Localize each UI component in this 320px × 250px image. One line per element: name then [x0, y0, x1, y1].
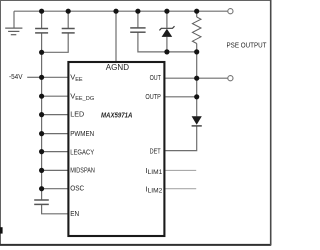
- wire AGND riser: [115, 11, 117, 61]
- capacitor C1: [35, 29, 48, 33]
- wire OUTP stub: [165, 96, 196, 98]
- wire capacitor C1 bottom lead: [41, 33, 43, 53]
- svg-text:AGND: AGND: [106, 63, 129, 72]
- svg-text:LEGACY: LEGACY: [70, 147, 94, 156]
- wire OUT stub to terminal: [165, 77, 227, 79]
- wire OUT column upper: [196, 52, 198, 117]
- node OUT: [194, 76, 199, 81]
- svg-text:PSE OUTPUT: PSE OUTPUT: [227, 41, 267, 50]
- wire OSC stub: [42, 188, 68, 190]
- wire resistor R1 bottom lead: [196, 44, 198, 52]
- node zener top: [164, 9, 169, 14]
- wire ground riser: [13, 11, 15, 28]
- node AGND top: [113, 9, 118, 14]
- wire capacitor C1 top lead: [41, 11, 43, 28]
- wire capacitor C2 top lead: [67, 11, 69, 28]
- resistor R1: [192, 17, 201, 44]
- wire LEGACY stub: [42, 151, 68, 153]
- svg-text:OUT: OUT: [150, 73, 162, 82]
- node LEGACY: [39, 149, 44, 154]
- terminal PSE-: [228, 76, 233, 81]
- node VEE_DG: [39, 94, 44, 99]
- svg-text:MAX5971A: MAX5971A: [101, 111, 132, 120]
- node LED: [39, 112, 44, 117]
- wire capacitor C2 return: [42, 33, 69, 53]
- wire ILIM2 stub: [165, 188, 196, 190]
- svg-text:DET: DET: [150, 147, 161, 156]
- svg-text:MIDSPAN: MIDSPAN: [70, 165, 95, 174]
- node junction dots: [39, 9, 199, 192]
- terminal PSE+: [228, 9, 233, 14]
- wire VEE stub: [42, 76, 68, 78]
- wire capacitor C3 bottom lead: [138, 32, 197, 52]
- node VEE: [39, 75, 44, 80]
- wire ILIM1 stub: [165, 169, 196, 171]
- svg-text:OSC: OSC: [70, 183, 84, 192]
- figure tab mark: [0, 227, 3, 233]
- wire top rail: [14, 10, 228, 12]
- wire OSC capacitor lead and EN stub: [42, 205, 68, 214]
- node MIDSPAN: [39, 168, 44, 173]
- wire zener D1 top lead: [166, 11, 168, 28]
- wire -54V input: [27, 76, 41, 78]
- node OUTP: [194, 94, 199, 99]
- ground: [5, 28, 22, 35]
- capacitor C2: [62, 29, 75, 33]
- wire MIDSPAN stub: [42, 169, 68, 171]
- node resistor bottom: [194, 49, 199, 54]
- wire resistor R1 top lead: [196, 11, 198, 17]
- svg-text:EN: EN: [70, 209, 79, 218]
- node C3 top: [135, 9, 140, 14]
- node resistor top: [194, 9, 199, 14]
- svg-text:-54V: -54V: [9, 72, 23, 81]
- diode D2: [192, 116, 202, 126]
- wire zener D1 bottom lead: [166, 37, 168, 52]
- node zener bottom: [164, 49, 169, 54]
- svg-text:PWMEN: PWMEN: [70, 129, 94, 138]
- node C1 top: [39, 9, 44, 14]
- svg-text:OUTP: OUTP: [145, 92, 161, 101]
- svg-text:LED: LED: [70, 109, 85, 118]
- capacitor C3: [130, 28, 145, 32]
- wire LED stub: [42, 114, 68, 116]
- wire capacitor C3 top lead: [137, 11, 139, 28]
- capacitor C4 (OSC): [34, 200, 49, 204]
- node PWMEN: [39, 131, 44, 136]
- op-amp U1 MAX5971A box: [68, 62, 164, 236]
- node C2 top: [66, 9, 71, 14]
- wire VEE_DG stub: [42, 95, 68, 97]
- node bus C2 join: [39, 50, 44, 55]
- wire diode D2 bottom lead and DET stub: [165, 126, 196, 151]
- node OSC: [39, 186, 44, 191]
- wire left bus: [41, 52, 43, 199]
- wire PWMEN stub: [42, 133, 68, 135]
- zener D1: [159, 26, 174, 37]
